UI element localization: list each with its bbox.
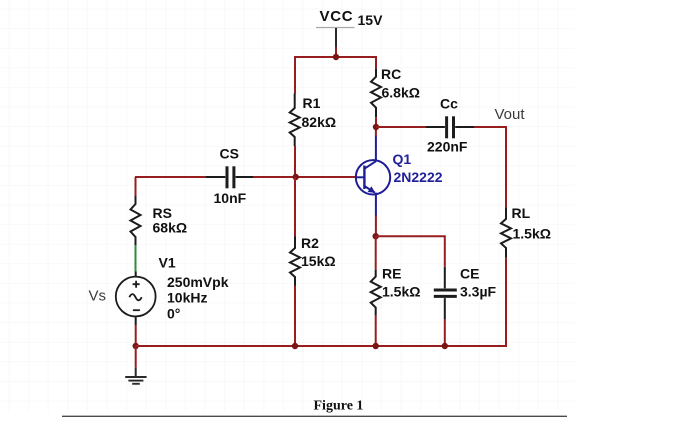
resistor RS bbox=[131, 196, 141, 245]
label Vs bbox=[89, 288, 107, 305]
junction rail RE bbox=[373, 343, 379, 349]
wire VCC stem to rail bbox=[335, 47, 337, 58]
svg-text:RL: RL bbox=[512, 205, 531, 221]
label R1 bbox=[303, 95, 321, 111]
label CE bbox=[460, 266, 479, 282]
label 1.5k ohm RL bbox=[513, 226, 551, 242]
svg-text:VCC: VCC bbox=[320, 8, 354, 25]
svg-text:CS: CS bbox=[220, 146, 239, 162]
capacitor Cc bbox=[426, 116, 474, 138]
label 15V bbox=[358, 12, 384, 28]
wire collector node to Cc bbox=[376, 126, 427, 128]
label RC bbox=[381, 66, 401, 82]
svg-text:82kΩ: 82kΩ bbox=[302, 114, 337, 130]
svg-text:Q1: Q1 bbox=[393, 151, 412, 167]
junction VCC node bbox=[333, 54, 339, 60]
wire emitter node to CE bbox=[376, 236, 445, 267]
wire RE bottom to rail bbox=[375, 315, 377, 346]
resistor R1 bbox=[290, 94, 300, 147]
ground bbox=[125, 368, 146, 384]
svg-text:3.3µF: 3.3µF bbox=[460, 284, 497, 300]
wire R1 to base node bbox=[294, 146, 296, 178]
svg-text:10kHz: 10kHz bbox=[167, 290, 207, 306]
transistor Q1 bbox=[356, 136, 390, 216]
label RS bbox=[153, 205, 172, 221]
source V1 bbox=[116, 272, 156, 326]
wire top rail bbox=[295, 57, 376, 58]
junction emitter node bbox=[373, 233, 379, 239]
label 15k ohm bbox=[301, 253, 336, 269]
svg-text:220nF: 220nF bbox=[427, 139, 468, 155]
wire V1 to ground node bbox=[135, 325, 137, 346]
label 10nF bbox=[214, 190, 247, 206]
label RL bbox=[512, 205, 531, 221]
label VCC bbox=[320, 8, 354, 25]
wire VCC stem (black lead) bbox=[335, 28, 337, 47]
label 82k ohm bbox=[302, 114, 337, 130]
svg-text:1.5kΩ: 1.5kΩ bbox=[513, 226, 551, 242]
label 3.3uF bbox=[460, 284, 497, 300]
svg-text:250mVpk: 250mVpk bbox=[167, 274, 229, 290]
resistor RE bbox=[371, 236, 381, 315]
svg-text:2N2222: 2N2222 bbox=[394, 169, 443, 185]
wire RL bottom to rail bbox=[505, 258, 506, 346]
label V1 bbox=[159, 255, 176, 271]
wire bottom rail bbox=[136, 345, 506, 347]
svg-text:V1: V1 bbox=[159, 255, 176, 271]
label Cc bbox=[440, 96, 458, 112]
label 2N2222 bbox=[394, 169, 443, 185]
wire RC top bbox=[375, 57, 377, 68]
wire emitter to emitter node bbox=[375, 216, 377, 238]
wire green net RS to V1 bbox=[135, 245, 137, 272]
wire top rail to R1 bbox=[294, 57, 296, 94]
junction collector node bbox=[373, 124, 379, 130]
svg-text:0°: 0° bbox=[167, 306, 180, 322]
svg-text:15V: 15V bbox=[358, 12, 384, 28]
junction rail CE bbox=[442, 343, 448, 349]
label Vout bbox=[495, 106, 526, 123]
wire RC bottom to collector node bbox=[375, 117, 377, 128]
svg-text:Cc: Cc bbox=[440, 96, 458, 112]
svg-text:6.8kΩ: 6.8kΩ bbox=[382, 85, 420, 101]
junction rail R2 bbox=[292, 343, 298, 349]
label Q1 bbox=[393, 151, 412, 167]
wire R2 top bbox=[294, 177, 296, 237]
capacitor CS bbox=[206, 166, 253, 188]
wire collector to RC node bbox=[375, 127, 377, 136]
svg-text:10nF: 10nF bbox=[214, 190, 247, 206]
svg-text:RC: RC bbox=[381, 66, 401, 82]
label 220nF bbox=[427, 139, 468, 155]
wire R2 bottom to rail bbox=[294, 286, 296, 347]
svg-text:RE: RE bbox=[382, 266, 401, 282]
label 0 deg bbox=[167, 306, 180, 322]
wire source branch top bbox=[135, 177, 137, 196]
resistor R2 bbox=[290, 237, 300, 286]
junction base node bbox=[293, 174, 299, 180]
label 250mVpk bbox=[167, 274, 229, 290]
power VCC bar bbox=[316, 27, 355, 29]
label 6.8k ohm bbox=[382, 85, 420, 101]
label R2 bbox=[301, 235, 319, 251]
svg-text:68kΩ: 68kΩ bbox=[153, 220, 188, 236]
wire CS to base bbox=[253, 176, 356, 178]
capacitor CE bbox=[434, 267, 457, 319]
svg-text:Vs: Vs bbox=[89, 288, 107, 305]
svg-text:CE: CE bbox=[460, 266, 479, 282]
label 68k ohm bbox=[153, 220, 188, 236]
label Figure 1 bbox=[314, 399, 364, 414]
svg-text:R2: R2 bbox=[301, 235, 319, 251]
label 10kHz bbox=[167, 290, 207, 306]
wire ground drop bbox=[135, 346, 137, 368]
svg-text:15kΩ: 15kΩ bbox=[301, 253, 336, 269]
svg-text:Vout: Vout bbox=[495, 106, 526, 123]
wire CE bottom to rail bbox=[444, 319, 446, 346]
resistor RC bbox=[371, 68, 381, 117]
wire base rail left segment bbox=[136, 177, 207, 178]
junction ground node bbox=[133, 343, 139, 349]
svg-text:Figure 1: Figure 1 bbox=[314, 399, 364, 414]
label 1.5k ohm RE bbox=[382, 284, 420, 300]
resistor RL bbox=[501, 207, 511, 257]
rule bottom border bbox=[62, 415, 567, 417]
wire Cc to RL corner bbox=[474, 127, 506, 207]
label CS bbox=[220, 146, 239, 162]
svg-text:1.5kΩ: 1.5kΩ bbox=[382, 284, 420, 300]
svg-text:R1: R1 bbox=[303, 95, 321, 111]
label RE bbox=[382, 266, 401, 282]
